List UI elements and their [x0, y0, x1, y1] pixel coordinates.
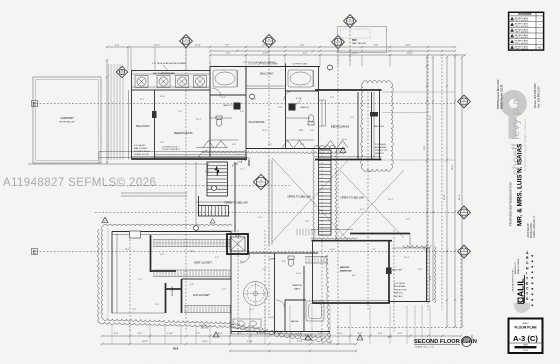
- svg-text:12'-4": 12'-4": [297, 341, 303, 343]
- svg-text:3'-2": 3'-2": [222, 289, 226, 291]
- svg-text:11'-0": 11'-0": [388, 199, 393, 201]
- svg-text:9'-0": 9'-0": [424, 145, 426, 150]
- svg-text:BALCONY: BALCONY: [136, 124, 150, 128]
- svg-text:CNTY 10-18-21: CNTY 10-18-21: [515, 37, 530, 39]
- svg-text:BALCONY: BALCONY: [374, 125, 385, 128]
- svg-text:6'-2": 6'-2": [138, 333, 143, 335]
- svg-text:5'-2": 5'-2": [140, 99, 144, 101]
- svg-text:9'-0": 9'-0": [114, 333, 119, 335]
- svg-text:11'-4": 11'-4": [263, 53, 269, 55]
- svg-text:SCALE: 1/4" = 1'-0": SCALE: 1/4" = 1'-0": [415, 346, 434, 349]
- svg-text:BATH #1: BATH #1: [301, 106, 310, 109]
- svg-text:8'-6": 8'-6": [352, 275, 356, 277]
- svg-text:9'-8": 9'-8": [305, 221, 309, 223]
- svg-text:W.C.: W.C.: [299, 130, 304, 132]
- svg-text:30-6: 30-6: [173, 347, 179, 351]
- svg-text:3'-6": 3'-6": [278, 107, 282, 109]
- svg-text:3'-4": 3'-4": [178, 111, 182, 113]
- svg-text:2'-8": 2'-8": [132, 309, 136, 311]
- svg-text:4'-2": 4'-2": [215, 257, 219, 259]
- svg-text:CALIL: CALIL: [516, 278, 526, 303]
- svg-text:ROOF BELOW: ROOF BELOW: [60, 122, 76, 124]
- svg-text:3'-6" HIGH: 3'-6" HIGH: [375, 144, 386, 146]
- svg-text:ALUM RAIL: ALUM RAIL: [394, 285, 406, 288]
- svg-text:7'-2": 7'-2": [430, 115, 432, 120]
- svg-text:2'-8": 2'-8": [310, 130, 314, 132]
- svg-text:14'-0": 14'-0": [154, 45, 160, 47]
- svg-text:3'-6" HIGH: 3'-6" HIGH: [394, 283, 405, 285]
- svg-text:4'-6": 4'-6": [258, 217, 262, 219]
- svg-text:POCKET SLDG: POCKET SLDG: [134, 151, 150, 153]
- svg-text:BALCONY: BALCONY: [392, 269, 403, 272]
- svg-text:4'-0": 4'-0": [115, 45, 120, 47]
- svg-text:CARPORT: CARPORT: [60, 116, 74, 120]
- svg-text:PICKET FENCE: PICKET FENCE: [162, 149, 178, 151]
- svg-text:1-8 HIGH SLATS: 1-8 HIGH SLATS: [292, 63, 308, 66]
- svg-text:4'-2": 4'-2": [406, 219, 410, 221]
- svg-text:11'-0": 11'-0": [167, 333, 173, 335]
- svg-text:CNTY 10-18-21: CNTY 10-18-21: [515, 49, 530, 51]
- svg-text:PROPOSED NEW RESIDENCE FOR:: PROPOSED NEW RESIDENCE FOR:: [509, 181, 513, 226]
- svg-text:12'-0": 12'-0": [352, 53, 358, 55]
- svg-text:PICKET TYP: PICKET TYP: [375, 150, 388, 152]
- svg-text:9'-2": 9'-2": [138, 279, 142, 281]
- svg-text:MR. & MRS. LUIS N. ISAIAS: MR. & MRS. LUIS N. ISAIAS: [517, 144, 524, 226]
- svg-text:BELOW: BELOW: [201, 328, 209, 330]
- svg-text:REVISIONS: REVISIONS: [518, 13, 531, 16]
- svg-text:6'-2": 6'-2": [252, 99, 256, 101]
- svg-text:CNTY 10-18-21: CNTY 10-18-21: [515, 26, 530, 28]
- svg-text:03-202: 03-202: [523, 350, 529, 352]
- svg-text:500: 500: [352, 38, 357, 42]
- svg-text:14'-0": 14'-0": [405, 45, 411, 47]
- svg-text:MAX. BELOW: MAX. BELOW: [352, 42, 367, 45]
- svg-text:2'-10": 2'-10": [296, 273, 302, 275]
- svg-text:A/C COMPRESSORS: A/C COMPRESSORS: [153, 72, 175, 75]
- svg-text:24'-0": 24'-0": [387, 337, 393, 339]
- svg-text:7'-4": 7'-4": [226, 53, 231, 55]
- svg-text:BEDROOM #1: BEDROOM #1: [174, 131, 193, 135]
- svg-text:16'-2": 16'-2": [330, 249, 336, 251]
- svg-text:8'-0": 8'-0": [190, 251, 194, 253]
- svg-text:3'-8": 3'-8": [418, 269, 422, 271]
- svg-text:MIAMI FLORIDA: MIAMI FLORIDA: [517, 258, 520, 274]
- svg-text:NC: NC: [538, 46, 542, 50]
- svg-text:Miami, Florida 33138: Miami, Florida 33138: [500, 84, 504, 109]
- svg-text:OPEN TO BELOW: OPEN TO BELOW: [224, 201, 248, 205]
- svg-text:5'-0": 5'-0": [350, 117, 354, 119]
- svg-text:7'-4": 7'-4": [300, 45, 305, 47]
- svg-text:1'-8" HIGH SLATS ALUM SCREEN: 1'-8" HIGH SLATS ALUM SCREEN: [152, 62, 187, 65]
- svg-text:6'-2": 6'-2": [398, 333, 403, 335]
- svg-text:9'-2": 9'-2": [330, 97, 334, 99]
- svg-text:7'-2": 7'-2": [196, 333, 201, 335]
- svg-text:11'-4": 11'-4": [195, 45, 201, 47]
- svg-text:4'-0": 4'-0": [222, 97, 226, 99]
- svg-text:A11948827 SEFMLS© 2026: A11948827 SEFMLS© 2026: [3, 177, 156, 189]
- svg-text:BATH #2: BATH #2: [224, 104, 233, 107]
- svg-text:HIS CLOSET: HIS CLOSET: [193, 293, 210, 297]
- svg-text:15'-2": 15'-2": [452, 164, 454, 170]
- svg-text:CNTY 10-18-21: CNTY 10-18-21: [515, 32, 530, 34]
- svg-text:AA26001575: AA26001575: [514, 262, 517, 274]
- svg-text:6'-0": 6'-0": [378, 333, 383, 335]
- svg-text:SHOWER: SHOWER: [172, 286, 174, 296]
- svg-text:5'-6": 5'-6": [268, 144, 272, 146]
- svg-text:ELEV: ELEV: [235, 236, 241, 238]
- svg-text:2-0 CLG CLIPS ALUM SCREEN: 2-0 CLG CLIPS ALUM SCREEN: [248, 63, 278, 66]
- svg-text:CNTY 10-18-21: CNTY 10-18-21: [515, 20, 530, 22]
- svg-text:7'-0": 7'-0": [262, 269, 266, 271]
- svg-text:BALCONY: BALCONY: [260, 72, 274, 76]
- svg-text:4'-2": 4'-2": [296, 98, 300, 100]
- svg-text:6'-8": 6'-8": [190, 284, 194, 286]
- svg-text:6'-2": 6'-2": [360, 209, 364, 211]
- svg-text:Fax: 305.892.1210: Fax: 305.892.1210: [537, 86, 541, 108]
- svg-text:4'-0": 4'-0": [270, 317, 274, 319]
- svg-text:7'-4": 7'-4": [155, 304, 159, 306]
- svg-text:PLAYROOM: PLAYROOM: [249, 120, 265, 124]
- svg-text:5'-6": 5'-6": [160, 254, 164, 256]
- svg-text:5'-4": 5'-4": [374, 45, 379, 47]
- svg-text:18'-4": 18'-4": [125, 249, 131, 251]
- svg-text:I: I: [526, 271, 527, 275]
- svg-text:6'-0": 6'-0": [338, 333, 343, 335]
- svg-text:16'-2": 16'-2": [142, 341, 148, 343]
- svg-text:14'-2": 14'-2": [407, 53, 413, 55]
- svg-text:5955 Biscayne Blvd #300: 5955 Biscayne Blvd #300: [496, 79, 500, 109]
- svg-text:RAIL PICKET: RAIL PICKET: [134, 147, 148, 150]
- svg-text:2'-8": 2'-8": [240, 111, 244, 113]
- svg-text:12'-0": 12'-0": [202, 341, 208, 343]
- svg-text:5'-2": 5'-2": [372, 249, 376, 251]
- svg-text:6'-0": 6'-0": [218, 333, 223, 335]
- svg-text:SHT A-9: SHT A-9: [394, 295, 403, 298]
- svg-text:ALUM RAIL: ALUM RAIL: [375, 146, 387, 149]
- svg-text:E: E: [33, 250, 36, 255]
- svg-text:12'-2": 12'-2": [196, 119, 202, 121]
- svg-text:BEDROOM: BEDROOM: [340, 271, 352, 273]
- svg-text:3'-0": 3'-0": [232, 144, 236, 146]
- svg-text:GLASS DOOR: GLASS DOOR: [134, 153, 149, 156]
- svg-text:4'-8": 4'-8": [282, 261, 286, 263]
- svg-text:MASTER: MASTER: [292, 284, 302, 287]
- svg-text:10'-6": 10'-6": [160, 96, 166, 98]
- svg-text:6'-2": 6'-2": [250, 309, 254, 311]
- svg-text:BATH: BATH: [294, 288, 300, 291]
- svg-text:11'-2": 11'-2": [262, 130, 267, 132]
- svg-text:architecture + interior design: architecture + interior design + planner…: [523, 119, 527, 172]
- svg-text:DATE: DATE: [523, 343, 528, 346]
- svg-text:PICKET TYP: PICKET TYP: [394, 289, 407, 291]
- svg-text:BEDROOM #2: BEDROOM #2: [331, 125, 350, 129]
- svg-text:7'-2": 7'-2": [240, 169, 244, 171]
- svg-text:11'-8": 11'-8": [247, 341, 253, 343]
- svg-text:SAUNA: SAUNA: [291, 320, 299, 323]
- svg-text:SEE DTL: SEE DTL: [375, 153, 385, 155]
- svg-text:LINEN: LINEN: [269, 259, 276, 261]
- svg-text:OPEN TO BELOW: OPEN TO BELOW: [287, 195, 311, 199]
- svg-text:MASTER: MASTER: [340, 266, 350, 269]
- svg-text:7'-4": 7'-4": [225, 45, 230, 47]
- svg-text:6'-0": 6'-0": [430, 275, 432, 280]
- svg-text:CORAL GABLES, FL: CORAL GABLES, FL: [533, 215, 536, 238]
- svg-text:12'-4": 12'-4": [404, 257, 410, 259]
- svg-text:Phone: 305.434.0310: Phone: 305.434.0310: [533, 83, 537, 108]
- svg-text:3'-6" HIGH: 3'-6" HIGH: [134, 145, 145, 147]
- svg-text:FLOOR PLAN: FLOOR PLAN: [514, 326, 537, 330]
- svg-text:CNTY 10-18-21: CNTY 10-18-21: [515, 43, 530, 45]
- svg-text:12'-0": 12'-0": [444, 194, 446, 200]
- svg-text:OPEN TO BELOW: OPEN TO BELOW: [340, 196, 364, 200]
- svg-text:SEE DTL: SEE DTL: [394, 293, 404, 295]
- svg-text:31'-0": 31'-0": [459, 194, 461, 200]
- svg-text:2'-8": 2'-8": [160, 142, 164, 144]
- svg-text:7'-4": 7'-4": [303, 53, 308, 55]
- svg-text:HER CLOSET: HER CLOSET: [194, 261, 212, 265]
- svg-text:A-3 (C): A-3 (C): [513, 334, 538, 343]
